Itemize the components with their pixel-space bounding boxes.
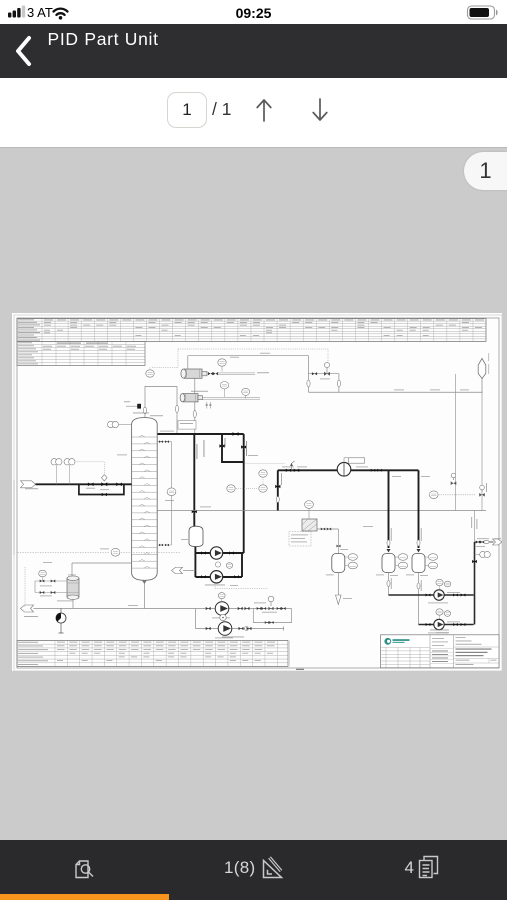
valve rows <box>35 581 67 593</box>
signal bars <box>8 13 11 18</box>
control valve LV <box>479 493 485 497</box>
pumps loop thick <box>195 553 243 577</box>
column label <box>133 412 149 415</box>
V-103 gauge bubbles <box>348 554 357 561</box>
off-page arrow distillate <box>172 567 183 574</box>
E-102 sample stubs <box>207 402 211 409</box>
instrument bubble <box>220 382 228 389</box>
drafting set-square icon <box>264 858 282 878</box>
valve manifold right <box>257 607 262 610</box>
pages icon <box>420 857 438 878</box>
PSV black body <box>137 404 141 409</box>
table cell text marks <box>44 319 53 322</box>
feed line thick <box>36 483 132 485</box>
letdown vertical line <box>455 374 457 511</box>
page thumbnail tab <box>464 152 507 191</box>
feed bypass loop <box>79 484 124 494</box>
heater outlet stub <box>317 529 339 554</box>
search-in-document icon <box>76 861 93 878</box>
V-104 gauge bubbles <box>398 554 407 561</box>
level signal dashed <box>18 551 181 553</box>
PSV stub <box>292 461 295 470</box>
reboiler return line <box>72 563 132 579</box>
minflow dashed <box>215 582 268 589</box>
product export header <box>475 541 494 543</box>
control valve PV <box>451 481 457 485</box>
up arrow <box>257 100 271 121</box>
vessel V-103 <box>332 554 345 573</box>
page number box <box>167 92 207 128</box>
feed control valve <box>101 482 107 486</box>
steam line valves <box>208 372 213 375</box>
company logo <box>384 638 391 645</box>
recycle pump C-101 <box>337 463 351 477</box>
hot bypass loop <box>222 434 244 462</box>
thick drop from suction <box>277 470 279 510</box>
clock <box>0 5 507 21</box>
vessel V-102 <box>189 526 203 546</box>
pump P-104B <box>434 619 444 629</box>
exchanger E-104 <box>67 579 79 598</box>
instrument bubble top right <box>480 551 486 557</box>
instrument bubble PIC <box>259 485 267 492</box>
down arrow <box>313 99 327 120</box>
secondary stream table grid <box>17 341 145 365</box>
column bottom outlet <box>143 580 145 608</box>
overhead product thick header <box>157 433 244 435</box>
distillation column T-101 shell <box>132 418 158 581</box>
condensate drop to V-102 <box>193 434 195 526</box>
instrument bubbles FIC/FT <box>51 459 57 465</box>
E-101/E-102 interconnection <box>194 378 196 434</box>
equipment tag box <box>178 421 196 430</box>
V-102 outlet thick <box>194 547 196 577</box>
off-page arrow bottoms <box>21 605 34 612</box>
instrument bubble TIC <box>305 501 314 509</box>
steam double line <box>218 373 255 375</box>
scattered pipe labels <box>160 430 174 433</box>
column top riser <box>145 386 177 434</box>
instrument bubble PSH <box>227 485 235 492</box>
instrument bubble PI <box>146 370 154 377</box>
riser to V-105 <box>418 470 420 548</box>
title block right fields <box>456 636 466 639</box>
dashed package box <box>289 532 311 547</box>
bottom stream data table <box>17 641 288 667</box>
transfer line 1 thick <box>389 594 474 596</box>
rotated line labels <box>196 444 199 459</box>
instrument bubble <box>39 570 47 577</box>
FV bypass loop <box>253 609 291 623</box>
riser to V-104 <box>388 470 390 548</box>
vessel V-105 <box>412 554 425 573</box>
pump P-103B <box>218 622 232 636</box>
V-105 outlet <box>418 573 420 625</box>
wifi icon <box>54 9 68 12</box>
page toolbar <box>0 78 507 148</box>
V-104 outlet <box>388 573 390 596</box>
transfer line 2 thick <box>419 624 474 626</box>
top line list table grid <box>17 319 486 342</box>
page indicator text <box>224 858 255 878</box>
cooler E-102 <box>183 394 198 402</box>
revision grid <box>381 648 431 668</box>
doc count text <box>405 858 414 878</box>
navbar title <box>48 29 159 50</box>
PCV bypass line <box>309 373 339 375</box>
instrument bubble LIC <box>429 491 438 499</box>
page count <box>212 92 231 126</box>
sheet border frame <box>17 318 499 668</box>
control valve PCV <box>324 372 330 376</box>
drain bubble below pump <box>220 614 226 620</box>
carrier text <box>27 5 53 20</box>
flare riser to off-page <box>481 378 483 392</box>
tiny scale marks below frame <box>296 669 304 670</box>
condenser E-101 <box>184 369 202 378</box>
status bar <box>0 0 507 24</box>
bottoms product line 2 <box>195 609 284 631</box>
V-103 drain arrow <box>337 572 339 595</box>
ball instrument <box>56 613 66 623</box>
instrument bubble PG column top <box>108 421 114 427</box>
off-page arrow right <box>493 539 503 545</box>
discharge riser thick <box>474 542 476 625</box>
flare header <box>309 391 483 393</box>
navigation bar <box>0 24 507 78</box>
equalization line <box>474 511 476 543</box>
instrument bubble <box>242 388 250 395</box>
E-101 inlet riser <box>187 356 189 369</box>
heater E-103 <box>302 519 317 531</box>
small bubbles between pumps <box>215 562 220 567</box>
title block middle fields <box>432 637 444 640</box>
instrument bubble LG <box>167 488 176 496</box>
dotted crossover <box>246 463 286 465</box>
instrument bubble PT <box>259 470 267 477</box>
table row label text <box>18 318 34 321</box>
table data marks <box>57 641 65 644</box>
dashed stub <box>24 567 26 607</box>
bottom toolbar <box>0 840 507 900</box>
pump P-102B <box>210 571 222 583</box>
PDF page <box>12 313 502 671</box>
instrument bubble LT <box>111 548 120 556</box>
title block frame <box>381 635 500 668</box>
battery <box>468 6 495 19</box>
level standpipe <box>157 442 171 545</box>
instrument bubble TI <box>218 359 226 366</box>
column trays <box>132 435 158 568</box>
suction thick line <box>278 469 337 471</box>
left margin vertical note <box>13 480 16 555</box>
instrument signal dashed line top <box>152 349 328 368</box>
bottoms product line 1 <box>34 608 292 610</box>
feed off-page connector <box>21 481 36 488</box>
pump P-103A <box>215 602 229 616</box>
instrument bubble above pump <box>218 593 225 599</box>
lower long header <box>157 510 486 512</box>
discharge thick line <box>351 469 419 471</box>
vessel V-104 <box>382 554 395 573</box>
overhead vapour line <box>188 355 309 357</box>
pump P-104A <box>434 590 444 600</box>
flow control valve FV <box>268 607 273 611</box>
pump P-102A <box>210 547 222 559</box>
back chevron <box>18 38 29 64</box>
cooling water double line <box>203 397 261 399</box>
V-105 gauge bubbles <box>428 554 437 561</box>
progress bar <box>0 894 169 900</box>
PCV station verticals <box>309 356 339 393</box>
